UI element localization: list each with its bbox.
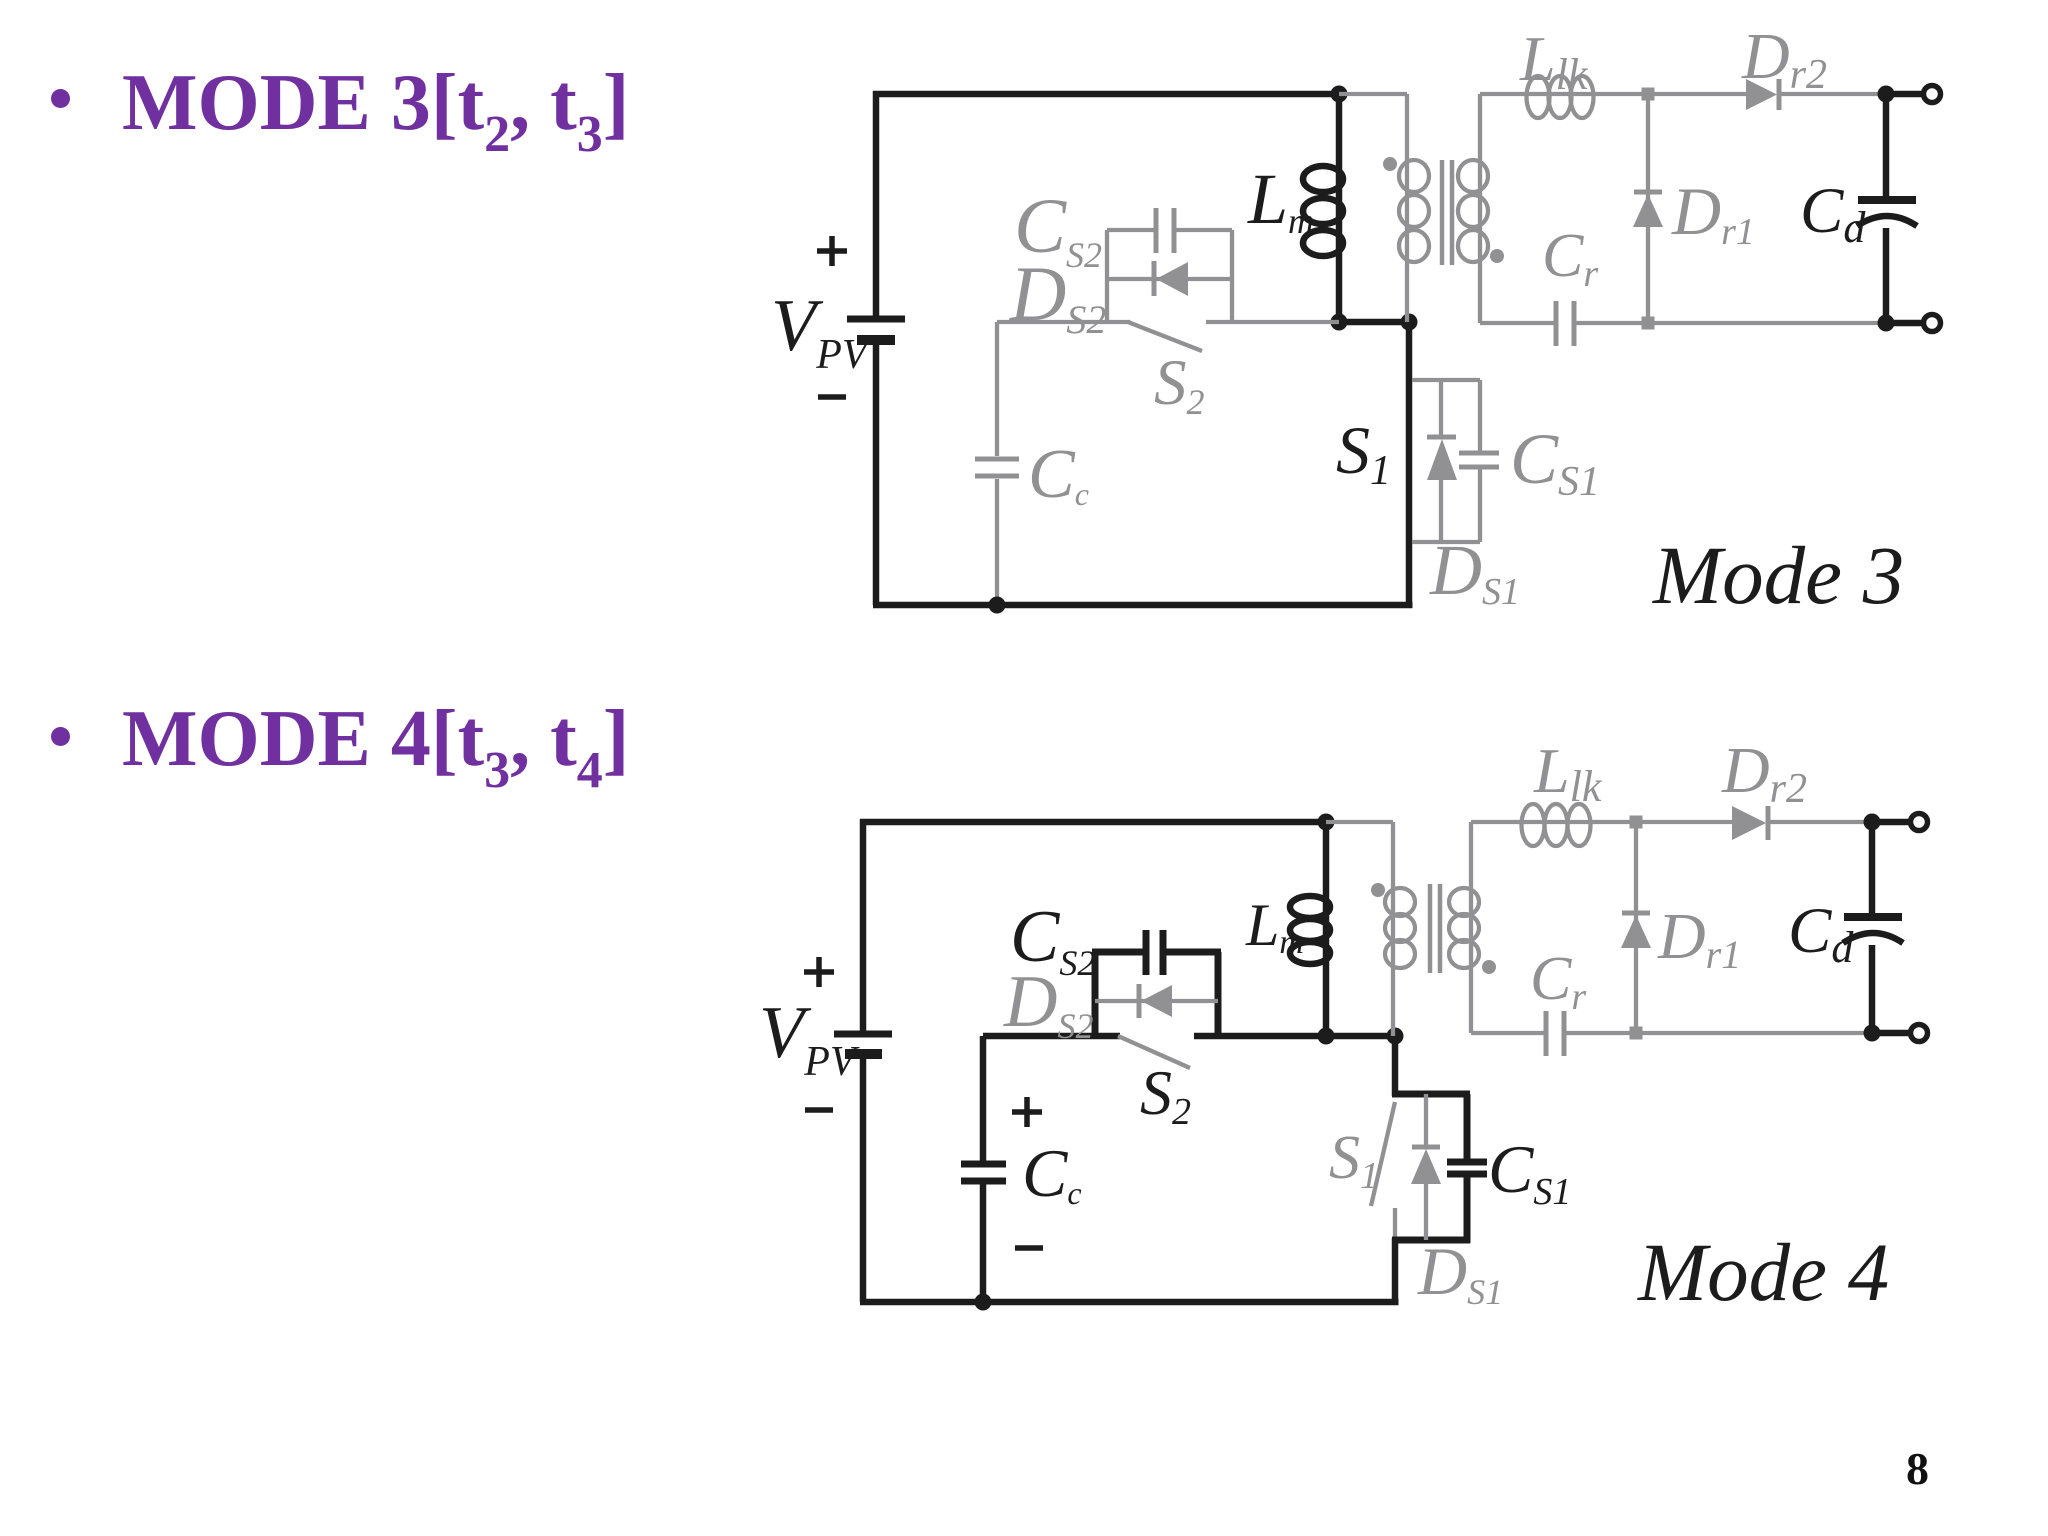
- svg-text:Dr1: Dr1: [1671, 173, 1755, 253]
- svg-text:Cr: Cr: [1530, 945, 1586, 1018]
- svg-text:Cr: Cr: [1542, 222, 1598, 295]
- svg-text:DS1: DS1: [1417, 1233, 1503, 1312]
- svg-text:Cd: Cd: [1788, 895, 1854, 972]
- svg-text:Mode 3: Mode 3: [1652, 529, 1904, 621]
- svg-text:Mode 4: Mode 4: [1637, 1226, 1889, 1318]
- svg-text:VPV: VPV: [759, 992, 860, 1085]
- svg-text:S2: S2: [1154, 347, 1205, 422]
- svg-text:Llk: Llk: [1519, 23, 1589, 99]
- svg-text:Cc: Cc: [1028, 436, 1089, 513]
- svg-text:Cd: Cd: [1800, 175, 1866, 252]
- svg-text:S1: S1: [1336, 412, 1391, 494]
- svg-text:S2: S2: [1140, 1057, 1191, 1133]
- svg-text:S1: S1: [1329, 1124, 1379, 1197]
- svg-text:CS1: CS1: [1488, 1131, 1571, 1213]
- svg-text:DS1: DS1: [1429, 530, 1520, 613]
- svg-text:Cc: Cc: [1022, 1135, 1082, 1211]
- svg-text:VPV: VPV: [771, 285, 872, 378]
- svg-text:CS1: CS1: [1510, 419, 1600, 505]
- svg-text:Dr2: Dr2: [1721, 734, 1807, 812]
- svg-text:Llk: Llk: [1533, 735, 1603, 811]
- svg-text:Dr2: Dr2: [1741, 20, 1827, 98]
- svg-text:Dr1: Dr1: [1657, 900, 1741, 977]
